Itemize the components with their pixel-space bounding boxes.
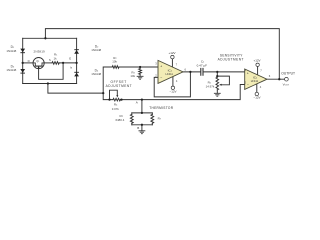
- node sensitivity tap: [216, 71, 218, 73]
- +12V terminal IC1: [171, 55, 174, 58]
- wire source through R1 to bridge right: [44, 62, 52, 64]
- wire riser to R2 and on to IC1 noninverting input: [103, 67, 112, 93]
- wire offset pot to IC2 inverting input: [120, 85, 244, 100]
- wire node A riser to thermistor network: [141, 100, 143, 113]
- svg-text:+12V: +12V: [168, 51, 175, 55]
- resistor R3 to ground: [139, 67, 141, 69]
- ground below sensitivity pot: [214, 93, 221, 96]
- wire IC1 feedback loop: [154, 72, 190, 97]
- resistor R4 offset pot zigzag: [113, 98, 120, 101]
- svg-text:E: E: [69, 57, 71, 61]
- op-amp U2 LF411: [245, 69, 267, 89]
- node bridge top junction: [44, 37, 46, 39]
- diode D3: [20, 69, 25, 73]
- wire C1 to IC2 noninverting input: [204, 71, 245, 73]
- svg-text:0.47 µF: 0.47 µF: [197, 64, 207, 68]
- wire sensitivity pot tap: [216, 72, 218, 76]
- svg-text:1N4148: 1N4148: [6, 49, 16, 53]
- node R2 R3 junction: [139, 66, 141, 68]
- node thermistor top center: [141, 112, 143, 114]
- diode D4: [74, 71, 79, 73]
- svg-text:+12V: +12V: [253, 59, 260, 63]
- wire thermistor network bottom edge: [132, 124, 153, 126]
- node bridge bottom tap: [47, 82, 49, 84]
- node source on right rail: [75, 62, 77, 64]
- svg-text:ADJUSTMENT: ADJUSTMENT: [218, 57, 244, 61]
- svg-text:ADJUSTMENT: ADJUSTMENT: [106, 84, 132, 88]
- svg-text:1N4148: 1N4148: [6, 68, 16, 72]
- resistor R2 zigzag: [112, 66, 119, 69]
- node IC1 feedback tap: [189, 71, 191, 73]
- svg-text:2N3819: 2N3819: [34, 50, 45, 54]
- resistor R5 sensitivity pot body: [216, 76, 218, 77]
- wire offset pot wiper loop: [110, 90, 118, 99]
- ground below thermistor network node B: [139, 131, 146, 134]
- pin4 IC2 supply lead: [256, 84, 258, 92]
- node offset pot left terminal: [108, 98, 110, 100]
- wire drain to bridge left: [23, 62, 33, 64]
- svg-text:S: S: [49, 58, 51, 62]
- wire top feedback rail: [45, 29, 279, 80]
- +12V terminal IC2: [256, 63, 259, 66]
- pin4 IC1 supply lead: [172, 77, 174, 87]
- node offset pot right terminal: [120, 98, 122, 100]
- thermistor RT body: [151, 113, 153, 115]
- svg-text:6480.4: 6480.4: [115, 118, 124, 122]
- wire bridge bottom tap to offset node: [48, 84, 103, 94]
- wire bridge left rail: [22, 38, 24, 83]
- wire bottom signal rail offset pot row: [103, 93, 113, 100]
- wire gate feedback loop: [39, 63, 64, 79]
- svg-text:10k: 10k: [130, 74, 135, 78]
- node source feedback junction: [62, 62, 64, 64]
- wire bridge top edge: [23, 37, 77, 39]
- svg-text:1N4148: 1N4148: [91, 72, 101, 76]
- output terminal Vout: [285, 77, 289, 81]
- arrow sensitivity pot wiper: [219, 84, 221, 86]
- wire IC1 output to C1: [183, 71, 200, 73]
- resistor RP body: [131, 113, 133, 115]
- svg-text:B: B: [137, 126, 139, 130]
- transistor Q1 2N3819: [33, 58, 44, 69]
- node thermistor bottom center B: [141, 124, 143, 126]
- -12V terminal IC1: [171, 86, 174, 89]
- node output feedback tap: [278, 78, 280, 80]
- pin7 IC2 supply lead: [257, 67, 259, 75]
- op-amp U1 LF411: [158, 60, 183, 83]
- svg-text:3.07k: 3.07k: [112, 107, 120, 111]
- wire thermistor network top edge: [132, 112, 153, 114]
- wire IC2 output: [267, 78, 285, 80]
- arrow offset pot wiper: [116, 95, 118, 97]
- svg-text:A: A: [136, 100, 138, 104]
- wire R2 to IC1: [119, 66, 158, 68]
- node drain on left rail: [22, 62, 24, 64]
- svg-text:14.97k: 14.97k: [206, 84, 215, 88]
- pin7 IC1 supply lead: [171, 59, 173, 67]
- node sensitivity pot top: [216, 75, 218, 77]
- wire node B to ground: [141, 125, 143, 131]
- capacitor C1: [201, 68, 203, 76]
- svg-text:+: +: [247, 72, 249, 76]
- node offset riser junction: [102, 92, 104, 94]
- svg-text:−: −: [247, 83, 249, 87]
- svg-text:1N4148: 1N4148: [91, 48, 101, 52]
- svg-text:THERMISTOR: THERMISTOR: [149, 106, 173, 110]
- svg-text:−12V: −12V: [169, 89, 176, 93]
- node A junction: [141, 98, 143, 100]
- wire bridge right rail: [76, 38, 78, 83]
- svg-text:+: +: [160, 64, 162, 68]
- -12V terminal IC2: [255, 92, 258, 95]
- svg-text:LF411: LF411: [165, 72, 173, 76]
- svg-text:D: D: [28, 59, 30, 63]
- svg-text:LF411: LF411: [251, 79, 259, 83]
- diode D2: [74, 49, 79, 51]
- svg-text:OUTPUT: OUTPUT: [281, 71, 295, 75]
- svg-text:10k: 10k: [112, 59, 117, 63]
- svg-text:−12V: −12V: [253, 96, 260, 100]
- wire sensitivity pot wiper loop: [217, 76, 229, 85]
- ground below R3: [137, 76, 144, 79]
- svg-text:−: −: [160, 76, 162, 80]
- diode D1: [20, 49, 25, 53]
- wire bridge bottom edge: [23, 83, 77, 85]
